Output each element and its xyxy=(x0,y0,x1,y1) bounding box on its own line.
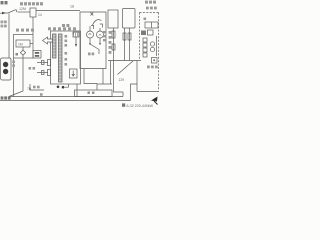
cabinet label lower xyxy=(147,66,158,69)
B1 inner relay rect xyxy=(16,40,30,47)
svg-text:129: 129 xyxy=(119,78,125,82)
wire down from diamond xyxy=(9,55,23,96)
coil2 on box2 wire xyxy=(112,44,115,50)
feeder terminal 24 xyxy=(48,60,51,66)
relay box 2 top right xyxy=(108,10,118,28)
terminal row labels 2M 3M xyxy=(48,27,76,30)
ink blot tail xyxy=(154,101,158,105)
ground bus 1 xyxy=(9,96,123,98)
plug contact dot 2 xyxy=(62,86,65,89)
bus1 right riser xyxy=(122,92,124,97)
wire inner rect to edge xyxy=(30,43,33,45)
feeder wire 24 xyxy=(37,62,48,64)
wire down from relay box 2 xyxy=(114,28,124,92)
cabinet right inner wire xyxy=(156,36,158,56)
block arrow pointing left xyxy=(43,37,53,44)
breaker cross mark xyxy=(91,13,94,16)
svg-text:14: 14 xyxy=(38,13,42,17)
dashed cabinet left edge xyxy=(139,13,141,61)
cabinet inner label xyxy=(144,18,147,21)
nested rect above flat box xyxy=(97,84,112,90)
wire below meter 2 xyxy=(99,38,101,44)
top horizontal bus xyxy=(36,10,80,12)
strip2 ticks xyxy=(59,37,63,79)
cluster box xyxy=(148,30,154,35)
cabinet terminal square 4 xyxy=(143,53,147,57)
lamp box dot xyxy=(153,59,155,61)
relay box 3 top right xyxy=(123,9,136,29)
title 第一级制冷系统 header text xyxy=(20,2,43,5)
ink blot arrow xyxy=(151,97,158,102)
dashed cabinet right edge xyxy=(158,13,160,91)
wire below contactor box left xyxy=(102,69,104,85)
plug hook wire xyxy=(64,84,68,87)
cabinet lamp box xyxy=(152,58,158,64)
wire rect to diamond xyxy=(22,47,24,50)
motor winding dot 2 xyxy=(3,69,8,74)
meter circle 1 xyxy=(87,31,94,38)
terminal strip column 2 xyxy=(59,34,63,82)
coil on wire b xyxy=(128,33,131,40)
nested corner wire xyxy=(84,69,97,84)
label 照明 above panel xyxy=(62,24,69,27)
breaker terminal left xyxy=(91,26,94,30)
svg-text:1M: 1M xyxy=(18,43,23,47)
svg-text:12M: 12M xyxy=(19,7,26,11)
relay box divider xyxy=(151,22,153,28)
wire down from fuse box xyxy=(32,17,34,35)
small arrowhead xyxy=(75,44,77,47)
cabinet relay long box xyxy=(145,22,158,28)
feeder terminal 25 xyxy=(48,70,51,76)
feeder wire 25 xyxy=(37,72,48,74)
feeder fuse 24 xyxy=(42,61,45,65)
B1 inner mark xyxy=(16,53,19,56)
vertical label column 启动柜 xyxy=(109,31,112,54)
aux box mark 2 xyxy=(35,55,39,57)
wire below contactor box right xyxy=(110,61,112,85)
svg-text:18: 18 xyxy=(70,5,74,9)
knife switch blade xyxy=(118,61,134,75)
riser wire right xyxy=(136,61,138,92)
cabinet label top right xyxy=(145,1,157,10)
arrowhead on incoming wire xyxy=(2,12,6,15)
wire to meter 1 xyxy=(89,26,91,31)
down arrow box xyxy=(70,69,78,78)
coil on box2 wire xyxy=(112,31,115,38)
cabinet terminal square 3 xyxy=(143,48,147,52)
wire incoming left xyxy=(0,12,8,14)
dashed cabinet top edge xyxy=(140,12,159,14)
meter 2 inner mark xyxy=(99,35,101,36)
B1 long left edge down xyxy=(13,58,15,97)
cabinet circle 1 xyxy=(150,42,154,46)
switch blade sloping wire xyxy=(90,44,99,50)
fuse box 12M xyxy=(30,8,36,17)
control box B1 xyxy=(14,35,34,59)
flat box label b xyxy=(92,92,94,94)
svg-text:7B: 7B xyxy=(27,87,32,91)
flat box label a xyxy=(88,92,90,94)
bottom right horizontal wire xyxy=(137,91,159,93)
cabinet circle 2 xyxy=(150,47,154,51)
aux box mark 1 xyxy=(35,52,39,54)
ground label xyxy=(1,96,11,99)
flat bottom box xyxy=(75,90,113,97)
meter 1 inner mark xyxy=(89,33,92,34)
plug contact dot 1 xyxy=(57,86,60,89)
label 24 25 xyxy=(29,67,36,70)
meter circle 2 xyxy=(97,31,104,38)
switch contact hook xyxy=(15,10,18,12)
label 46 xyxy=(12,61,15,67)
panel drop wire xyxy=(76,84,78,97)
wire stub below blade xyxy=(98,50,100,55)
disconnect switch blade xyxy=(8,10,16,13)
wire to fuse box xyxy=(18,11,31,13)
feeder fuse 25 xyxy=(42,71,45,75)
horizontal link line xyxy=(108,60,141,62)
hatched component xyxy=(73,32,79,37)
bus2 right riser xyxy=(131,84,138,101)
main contactor enclosure box xyxy=(80,12,106,69)
label 48 xyxy=(33,86,40,89)
junction dot 2 xyxy=(99,43,101,45)
label 170 xyxy=(88,53,94,56)
label blobs left edge xyxy=(1,21,7,28)
panel inner labels xyxy=(65,35,68,66)
label 8 xyxy=(40,93,43,96)
wire down from hatched xyxy=(75,37,77,46)
svg-text:6-32 220-440kW: 6-32 220-440kW xyxy=(127,104,154,108)
motor winding dot 1 xyxy=(3,62,8,67)
cabinet terminal square 2 xyxy=(143,43,147,47)
wire down from relay box 3 pin a xyxy=(124,28,126,61)
cabinet terminal square 1 xyxy=(143,38,147,42)
breaker terminal right xyxy=(100,24,103,28)
wire to meter 2 xyxy=(99,28,101,31)
wire down from relay box 3 pin b xyxy=(129,28,131,61)
wire below meter 1 xyxy=(89,38,91,44)
hatch marks xyxy=(73,32,78,37)
strip1 ticks xyxy=(53,37,57,55)
terminal row labels 4 5 6 xyxy=(16,29,34,32)
motor box xyxy=(1,58,11,80)
cabinet dark cluster xyxy=(141,31,146,36)
small box above bus left xyxy=(30,84,44,90)
caption 图6-32 xyxy=(122,103,125,106)
terminal strip column 1 xyxy=(53,34,57,58)
control panel B2 xyxy=(51,31,81,84)
junction dot xyxy=(89,43,91,45)
down arrow symbol xyxy=(72,71,75,77)
coil on wire a xyxy=(123,33,126,40)
ground bus 2 xyxy=(0,100,131,102)
vertical label inside box xyxy=(103,31,105,41)
diamond component xyxy=(20,50,25,55)
breaker arc blade xyxy=(93,20,102,25)
left vertical feeder xyxy=(8,14,10,59)
aux box with marks xyxy=(33,51,41,59)
node label top-left xyxy=(1,1,8,4)
